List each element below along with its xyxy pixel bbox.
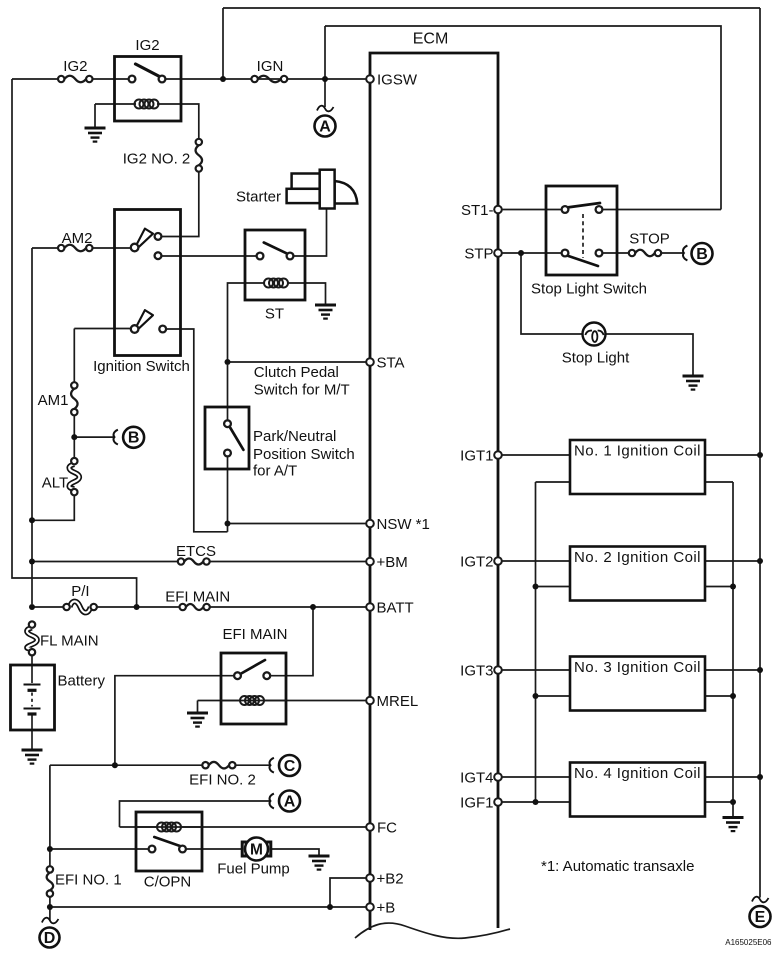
svg-text:Fuel Pump: Fuel Pump xyxy=(217,861,290,878)
svg-text:MREL: MREL xyxy=(377,693,419,710)
svg-text:A: A xyxy=(319,118,331,135)
svg-text:STP: STP xyxy=(464,245,493,262)
svg-text:BATT: BATT xyxy=(377,599,414,616)
svg-text:for A/T: for A/T xyxy=(253,463,297,480)
svg-text:E: E xyxy=(755,909,766,926)
svg-text:NSW *1: NSW *1 xyxy=(377,516,430,533)
svg-text:No. 1 Ignition Coil: No. 1 Ignition Coil xyxy=(574,443,701,460)
svg-text:EFI MAIN: EFI MAIN xyxy=(165,589,230,606)
svg-text:C: C xyxy=(284,758,296,775)
svg-text:A165025E06: A165025E06 xyxy=(725,938,772,947)
svg-text:IGT4: IGT4 xyxy=(460,769,493,786)
svg-text:STA: STA xyxy=(377,354,405,371)
svg-text:FC: FC xyxy=(377,819,397,836)
svg-text:FL MAIN: FL MAIN xyxy=(40,632,99,649)
svg-text:Stop Light: Stop Light xyxy=(562,350,630,367)
svg-text:C/OPN: C/OPN xyxy=(144,874,192,891)
svg-text:ST1-: ST1- xyxy=(461,202,494,219)
svg-text:No. 2 Ignition Coil: No. 2 Ignition Coil xyxy=(574,549,701,566)
svg-text:ALT: ALT xyxy=(42,475,68,492)
svg-text:Ignition Switch: Ignition Switch xyxy=(93,358,190,375)
svg-text:Clutch Pedal: Clutch Pedal xyxy=(254,364,339,381)
svg-text:EFI MAIN: EFI MAIN xyxy=(222,626,287,643)
svg-text:*1: Automatic transaxle: *1: Automatic transaxle xyxy=(541,858,694,875)
svg-text:STOP: STOP xyxy=(629,231,670,248)
svg-text:No. 3 Ignition Coil: No. 3 Ignition Coil xyxy=(574,659,701,676)
svg-text:Switch for M/T: Switch for M/T xyxy=(254,382,350,399)
svg-text:B: B xyxy=(696,246,708,263)
svg-text:AM2: AM2 xyxy=(62,230,93,247)
svg-text:IGT3: IGT3 xyxy=(460,662,493,679)
svg-text:M: M xyxy=(250,841,263,858)
svg-text:IGF1: IGF1 xyxy=(460,794,493,811)
svg-text:IGT1: IGT1 xyxy=(460,447,493,464)
svg-text:D: D xyxy=(44,930,56,947)
svg-text:IG2 NO. 2: IG2 NO. 2 xyxy=(123,151,191,168)
svg-text:B: B xyxy=(128,430,140,447)
svg-text:+B2: +B2 xyxy=(377,870,404,887)
svg-text:IG2: IG2 xyxy=(63,58,87,75)
svg-text:Stop Light Switch: Stop Light Switch xyxy=(531,281,647,298)
svg-text:ST: ST xyxy=(265,306,284,323)
svg-text:ECM: ECM xyxy=(413,31,449,48)
svg-text:+BM: +BM xyxy=(377,554,408,571)
svg-text:P/I: P/I xyxy=(71,583,89,600)
svg-text:Starter: Starter xyxy=(236,188,281,205)
svg-text:Position Switch: Position Switch xyxy=(253,446,355,463)
svg-text:IGSW: IGSW xyxy=(377,71,418,88)
svg-text:ETCS: ETCS xyxy=(176,543,216,560)
svg-text:EFI NO. 1: EFI NO. 1 xyxy=(55,872,122,889)
svg-text:IGN: IGN xyxy=(257,58,284,75)
svg-text:EFI NO. 2: EFI NO. 2 xyxy=(189,771,256,788)
svg-text:Park/Neutral: Park/Neutral xyxy=(253,428,336,445)
svg-text:IG2: IG2 xyxy=(135,37,159,54)
svg-text:A: A xyxy=(284,793,296,810)
svg-text:AM1: AM1 xyxy=(38,392,69,409)
svg-text:No. 4 Ignition Coil: No. 4 Ignition Coil xyxy=(574,765,701,782)
svg-text:+B: +B xyxy=(377,899,396,916)
svg-text:Battery: Battery xyxy=(58,673,106,690)
svg-text:IGT2: IGT2 xyxy=(460,553,493,570)
